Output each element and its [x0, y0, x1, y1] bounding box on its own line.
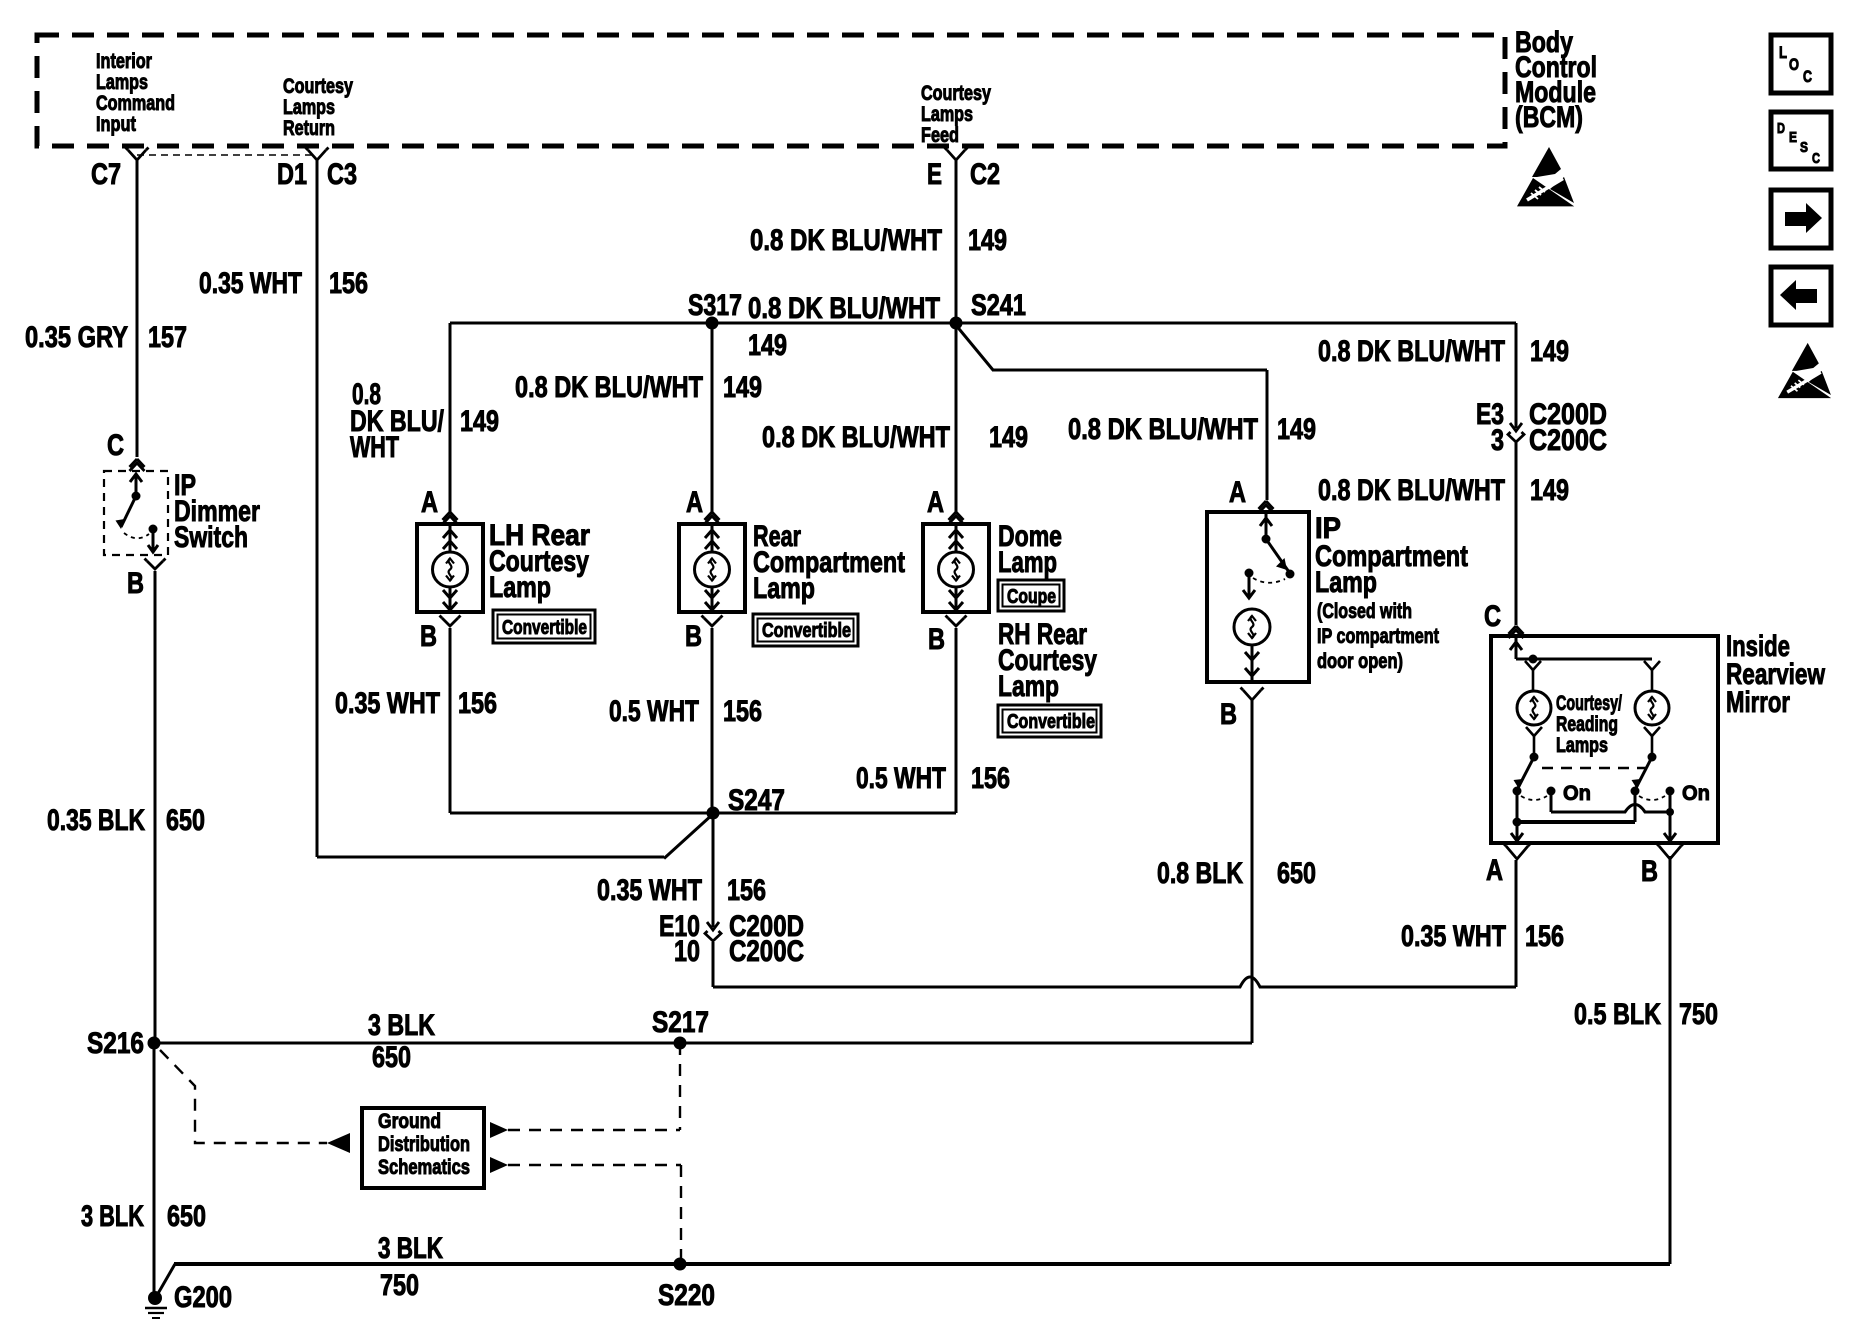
- svg-text:S247: S247: [728, 784, 785, 817]
- svg-text:D1: D1: [277, 158, 307, 191]
- svg-text:Reading: Reading: [1556, 713, 1618, 736]
- IP lamp switch input post: [1265, 512, 1268, 539]
- pin B terminal dome lamp: [948, 618, 964, 626]
- pin A terminal IP lamp: [1259, 501, 1267, 509]
- splice S241: [950, 317, 963, 330]
- Coupe tag: [998, 580, 1064, 611]
- svg-text:149: 149: [1530, 474, 1569, 507]
- wire 750 BLK from mirror B to S220 run: [1669, 856, 1672, 1264]
- pin A terminal dome lamp: [949, 512, 957, 520]
- svg-text:S: S: [1800, 139, 1808, 156]
- svg-text:Switch: Switch: [174, 521, 248, 554]
- svg-text:0.8 DK BLU/WHT: 0.8 DK BLU/WHT: [762, 421, 950, 454]
- svg-text:149: 149: [723, 371, 762, 404]
- pin B terminal RC lamp: [704, 618, 720, 626]
- LOC hyperlink icon: [1771, 35, 1831, 93]
- dimmer switch input post arrow: [135, 474, 138, 496]
- svg-text:Convertible: Convertible: [502, 617, 587, 639]
- svg-text:157: 157: [148, 321, 187, 354]
- splice S217: [674, 1037, 687, 1050]
- svg-text:B: B: [127, 567, 144, 600]
- wire 149 right drop to C200 connector: [1515, 323, 1518, 421]
- svg-text:B: B: [420, 620, 437, 653]
- svg-text:149: 149: [748, 329, 787, 362]
- IP lamp bulb leg: [1248, 573, 1251, 597]
- svg-text:Ground: Ground: [378, 1110, 441, 1133]
- svg-text:On: On: [1682, 782, 1710, 805]
- IP lamp switch travel arc: [1253, 578, 1285, 583]
- svg-text:156: 156: [727, 874, 766, 907]
- svg-text:Coupe: Coupe: [1007, 586, 1056, 608]
- svg-text:A: A: [1229, 476, 1246, 509]
- svg-text:Lamp: Lamp: [753, 572, 815, 605]
- svg-text:C: C: [1803, 67, 1812, 86]
- svg-text:S216: S216: [87, 1027, 144, 1060]
- splice S220: [674, 1258, 687, 1271]
- Ground Distribution Schematics reference box: [362, 1108, 484, 1188]
- wire 156 WHT RC lamp B to S247: [711, 628, 714, 813]
- dashed reference to S217: [490, 1122, 508, 1138]
- mirror left On contact: [1547, 787, 1556, 796]
- svg-text:0.35 GRY: 0.35 GRY: [25, 321, 128, 354]
- mirror A net (blade contacts) bus: [1516, 791, 1519, 822]
- wire 149 drop to LH rear courtesy lamp: [449, 323, 452, 513]
- svg-text:156: 156: [329, 267, 368, 300]
- mirror right lamp branch: [1644, 661, 1660, 670]
- svg-text:On: On: [1563, 782, 1591, 805]
- IP lamp switch contact: [1245, 569, 1254, 578]
- wire 156 WHT LH lamp B to S247: [449, 628, 452, 813]
- DESC hyperlink icon: [1771, 112, 1831, 169]
- wire 156 WHT horizontal run to S247: [317, 856, 664, 859]
- mirror left switch pivot and blade: [1530, 753, 1539, 762]
- svg-text:0.5 WHT: 0.5 WHT: [856, 762, 946, 795]
- svg-text:C: C: [107, 429, 124, 462]
- mirror left lamp branch: [1525, 661, 1541, 670]
- svg-text:L: L: [1779, 43, 1787, 62]
- dimmer switch pivot: [132, 492, 141, 501]
- svg-text:Feed: Feed: [921, 124, 959, 147]
- svg-text:3 BLK: 3 BLK: [378, 1232, 443, 1265]
- svg-text:S317: S317: [688, 289, 742, 322]
- wire 149 DK BLU/WHT feed bus horizontal: [450, 322, 1516, 325]
- svg-text:E: E: [927, 158, 942, 191]
- svg-text:A: A: [421, 486, 438, 519]
- svg-text:Input: Input: [96, 113, 136, 136]
- svg-text:C200C: C200C: [1529, 424, 1607, 457]
- pin C terminal mirror: [1509, 626, 1517, 634]
- svg-text:3: 3: [1491, 424, 1504, 457]
- svg-text:C: C: [1812, 150, 1820, 167]
- svg-text:(BCM): (BCM): [1515, 101, 1583, 134]
- IP lamp switch blade: [1266, 539, 1289, 572]
- svg-text:0.35 WHT: 0.35 WHT: [199, 267, 302, 300]
- svg-text:Lamp: Lamp: [998, 670, 1059, 703]
- Body Control Module (BCM) U1 dashed outline: [37, 35, 1505, 146]
- svg-text:WHT: WHT: [350, 431, 399, 464]
- svg-text:B: B: [1641, 855, 1658, 888]
- svg-text:10: 10: [674, 935, 700, 968]
- svg-text:0.35 BLK: 0.35 BLK: [47, 804, 145, 837]
- svg-text:A: A: [1486, 854, 1503, 887]
- wire 149 from C200C to mirror C: [1515, 442, 1518, 625]
- mirror A output arrow: [1516, 822, 1519, 841]
- wire 156 WHT dome lamp B to S247: [955, 628, 958, 813]
- ground G200: [148, 1291, 162, 1305]
- svg-text:IP compartment: IP compartment: [1317, 625, 1439, 648]
- mirror B output arrow: [1669, 812, 1672, 841]
- Convertible tag RC: [753, 614, 858, 646]
- wire 149 branch S241 to IP compartment lamp: [955, 324, 993, 370]
- svg-text:156: 156: [1525, 920, 1564, 953]
- pin A terminal LH lamp: [443, 512, 451, 520]
- svg-text:B: B: [928, 623, 945, 656]
- svg-text:156: 156: [723, 695, 762, 728]
- svg-text:door open): door open): [1317, 650, 1403, 673]
- svg-text:D: D: [1777, 120, 1785, 137]
- svg-text:Mirror: Mirror: [1726, 686, 1790, 719]
- BCM connector face dashed line C7-D1: [137, 154, 317, 156]
- Convertible tag dome: [998, 705, 1101, 737]
- svg-text:Distribution: Distribution: [378, 1133, 470, 1156]
- svg-text:3 BLK: 3 BLK: [81, 1200, 144, 1233]
- svg-text:Courtesy: Courtesy: [921, 82, 991, 105]
- svg-text:0.5 BLK: 0.5 BLK: [1574, 998, 1661, 1031]
- svg-text:750: 750: [380, 1269, 419, 1302]
- wire 156 WHT from S247 to C200 connector: [712, 813, 715, 916]
- svg-text:0.35 WHT: 0.35 WHT: [335, 687, 440, 720]
- svg-text:(Closed with: (Closed with: [1317, 600, 1412, 623]
- svg-text:Lamps: Lamps: [1556, 734, 1608, 757]
- dimmer switch blade: [121, 496, 136, 527]
- pin D1/C3 terminal: [308, 150, 326, 160]
- mirror feed junction: [1529, 655, 1538, 664]
- svg-text:650: 650: [166, 804, 205, 837]
- svg-text:C7: C7: [91, 158, 121, 191]
- pin A terminal RC lamp: [705, 512, 713, 520]
- dimmer pin B terminal: [147, 561, 163, 569]
- wire 650 BLK from IP lamp B to S217 run: [1251, 698, 1254, 1043]
- svg-text:0.5 WHT: 0.5 WHT: [609, 695, 699, 728]
- svg-text:0.8 DK BLU/WHT: 0.8 DK BLU/WHT: [515, 371, 703, 404]
- dimmer switch contact: [149, 525, 158, 534]
- wire 750 BLK ground bus: [174, 1262, 1670, 1266]
- splice S216: [148, 1037, 161, 1050]
- svg-text:A: A: [686, 486, 703, 519]
- svg-text:650: 650: [1277, 857, 1316, 890]
- wire 156 WHT from BCM C3 down: [316, 160, 319, 857]
- svg-text:149: 149: [968, 224, 1007, 257]
- svg-text:0.8 DK BLU/WHT: 0.8 DK BLU/WHT: [1068, 413, 1258, 446]
- dimmer switch travel arc: [124, 533, 149, 538]
- forward arrow icon: [1771, 190, 1831, 248]
- svg-text:0.8 DK BLU/WHT: 0.8 DK BLU/WHT: [1318, 335, 1505, 368]
- connector C200D/C200C pin E3/3: [1515, 421, 1518, 428]
- svg-text:S220: S220: [658, 1279, 715, 1312]
- mirror left switch blade contact: [1513, 787, 1522, 796]
- svg-text:Courtesy/: Courtesy/: [1556, 692, 1622, 715]
- splice S317: [706, 317, 719, 330]
- svg-text:B: B: [685, 620, 702, 653]
- svg-text:0.8 DK BLU/WHT: 0.8 DK BLU/WHT: [748, 292, 940, 325]
- svg-text:S241: S241: [971, 289, 1026, 322]
- wire 156 WHT from C200C to mirror pin A: [712, 942, 715, 987]
- svg-text:C3: C3: [327, 158, 357, 191]
- wire 650 BLK from S216 to G200: [153, 1043, 156, 1297]
- svg-text:B: B: [1220, 698, 1237, 731]
- wire 157 GRY from BCM C7 to IP dimmer switch: [136, 160, 139, 457]
- svg-text:E: E: [1789, 129, 1797, 146]
- svg-text:O: O: [1789, 55, 1799, 74]
- svg-text:0.8 DK BLU/WHT: 0.8 DK BLU/WHT: [750, 224, 942, 257]
- IP lamp switch pivot: [1262, 535, 1271, 544]
- svg-text:Convertible: Convertible: [762, 620, 851, 642]
- svg-text:0.35 WHT: 0.35 WHT: [1401, 920, 1506, 953]
- svg-text:Courtesy: Courtesy: [283, 75, 353, 98]
- splice S247: [707, 807, 720, 820]
- svg-text:C: C: [1484, 600, 1501, 633]
- svg-text:Convertible: Convertible: [1007, 711, 1095, 733]
- svg-text:156: 156: [458, 687, 497, 720]
- svg-text:650: 650: [167, 1200, 206, 1233]
- mirror right switch pivot and blade: [1648, 753, 1657, 762]
- pin C7 terminal: [128, 150, 146, 160]
- wire 650 BLK S216 to S217 to IP lamp B: [154, 1042, 1252, 1045]
- svg-text:0.35 WHT: 0.35 WHT: [597, 874, 702, 907]
- svg-text:Lamp: Lamp: [489, 571, 551, 604]
- pin B terminal mirror: [1659, 846, 1681, 859]
- svg-text:A: A: [927, 486, 944, 519]
- wire 650 BLK from dimmer B to S216: [154, 571, 157, 1043]
- svg-text:Schematics: Schematics: [378, 1156, 470, 1179]
- dimmer pin C terminal: [130, 459, 138, 467]
- wire 149 drop S241 to dome lamp: [955, 323, 958, 513]
- pin E/C2 terminal: [947, 150, 965, 160]
- svg-text:156: 156: [971, 762, 1010, 795]
- svg-text:0.8 DK BLU/WHT: 0.8 DK BLU/WHT: [1318, 474, 1505, 507]
- svg-text:Lamps: Lamps: [96, 71, 148, 94]
- dashed reference to S220: [490, 1157, 508, 1173]
- wire 149 drop S317 to rear compartment lamp: [711, 323, 714, 513]
- svg-text:Lamp: Lamp: [998, 546, 1057, 579]
- svg-text:Return: Return: [283, 117, 335, 140]
- svg-text:G200: G200: [174, 1281, 232, 1314]
- mirror right switch blade contact: [1631, 787, 1640, 796]
- back arrow icon: [1771, 267, 1831, 325]
- pin B terminal LH lamp: [442, 618, 458, 626]
- svg-text:C200C: C200C: [729, 935, 804, 968]
- svg-text:Command: Command: [96, 92, 175, 115]
- dashed reference from S216 to ground distribution schematics: [160, 1050, 327, 1143]
- dimmer switch output arrow to B: [152, 529, 155, 551]
- svg-text:3 BLK: 3 BLK: [368, 1009, 435, 1042]
- svg-text:S217: S217: [652, 1006, 709, 1039]
- svg-text:Lamps: Lamps: [921, 103, 973, 126]
- svg-text:149: 149: [989, 421, 1028, 454]
- svg-text:650: 650: [372, 1041, 411, 1074]
- IP Dimmer Switch S1 dashed box: [104, 471, 168, 555]
- svg-text:0.8 BLK: 0.8 BLK: [1157, 857, 1243, 890]
- svg-text:Interior: Interior: [96, 50, 152, 73]
- svg-text:Lamps: Lamps: [283, 96, 335, 119]
- svg-text:Lamp: Lamp: [1315, 566, 1377, 599]
- Convertible tag LH: [493, 610, 595, 643]
- mirror switch mechanical link: [1542, 767, 1647, 769]
- svg-text:C2: C2: [970, 158, 1000, 191]
- wire 149 from BCM E/C2 to S241: [955, 160, 958, 323]
- mirror B net (On contacts) bus with hop: [1550, 791, 1553, 812]
- connector C200D/C200C pin E10/10: [712, 916, 715, 927]
- mirror right On contact: [1666, 787, 1675, 796]
- pin A terminal mirror: [1506, 846, 1528, 859]
- pin B terminal IP lamp: [1243, 690, 1261, 700]
- svg-text:750: 750: [1679, 998, 1718, 1031]
- svg-text:149: 149: [1277, 413, 1316, 446]
- svg-text:149: 149: [1530, 335, 1569, 368]
- svg-text:149: 149: [460, 405, 499, 438]
- mirror internal feed from C: [1515, 636, 1518, 659]
